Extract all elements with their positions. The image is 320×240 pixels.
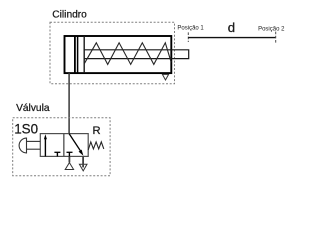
svg-text:d: d (228, 20, 235, 35)
svg-text:Válvula: Válvula (16, 103, 50, 114)
supply triangle (pressure source) (65, 163, 73, 170)
svg-text:Posição 1: Posição 1 (177, 25, 204, 31)
dashed frame cylinder group box (50, 22, 175, 83)
svg-text:Cilindro: Cilindro (52, 10, 87, 21)
svg-text:1S0: 1S0 (14, 122, 38, 137)
valve V1 body left square (40, 134, 64, 157)
cylinder spring anchor line (83, 36, 85, 73)
svg-text:Posição 2: Posição 2 (258, 26, 285, 32)
svg-text:R: R (93, 125, 101, 137)
exhaust triangle (79, 164, 87, 171)
cylinder return spring (84, 43, 171, 65)
flow path diagonal right square to exhaust (69, 134, 81, 152)
dashed frame valve group box (13, 118, 110, 176)
dimension line d (188, 37, 275, 39)
cylinder vent triangle (162, 74, 168, 80)
cylinder piston line 2 (77, 36, 79, 73)
cylinder C1 body (65, 36, 172, 73)
return spring R zigzag (88, 142, 104, 150)
blocked port T right square (supply blocked) (68, 152, 70, 156)
tick position 1 (187, 32, 189, 42)
supply port stub (68, 156, 70, 162)
wire cylinder port to valve port 2 (68, 73, 70, 134)
flow arrow left square (44, 139, 46, 157)
tick position 2 (275, 32, 277, 44)
cylinder piston rod (84, 50, 189, 59)
valve V1 body right square (64, 134, 88, 157)
blocked port T left square (56, 152, 58, 156)
exhaust port stub (82, 156, 84, 167)
push button actuator (19, 138, 26, 153)
cylinder piston line 1 (74, 36, 76, 73)
